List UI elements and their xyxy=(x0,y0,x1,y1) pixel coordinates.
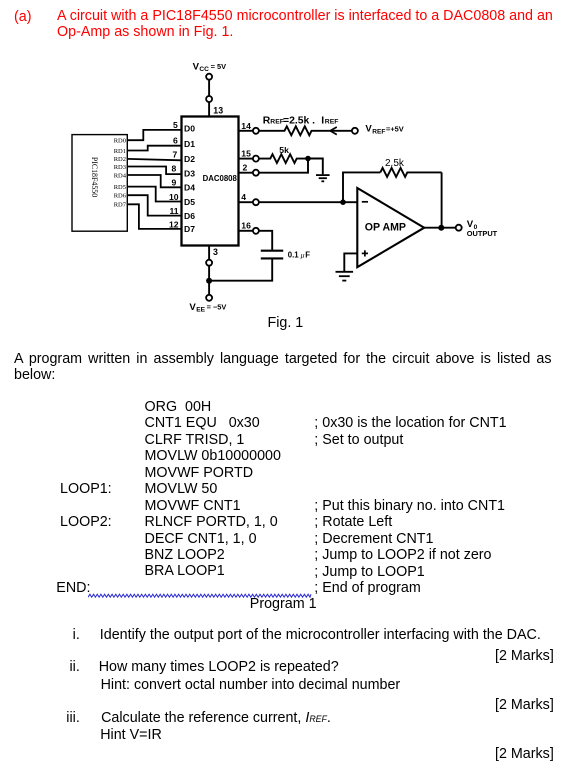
svg-text:15: 15 xyxy=(241,149,251,159)
svg-text:D0: D0 xyxy=(184,123,195,133)
VEE label xyxy=(189,302,226,314)
svg-text:RD4: RD4 xyxy=(114,172,127,179)
wire non-inverting input to ground xyxy=(344,253,357,271)
question iii numeral xyxy=(66,710,80,726)
svg-text:= −5V: = −5V xyxy=(207,303,227,312)
wire RD1 to D1 xyxy=(127,146,181,151)
op-amp minus sign xyxy=(362,201,368,203)
wire RD2 to D2 xyxy=(127,159,181,160)
assembly code listing labels xyxy=(60,481,112,497)
program intro paragraph xyxy=(14,352,552,383)
svg-text:=2.5k .: =2.5k . xyxy=(283,116,315,127)
wire pin2 up to node xyxy=(259,159,308,173)
wire pin4 to op-amp inverting input xyxy=(259,201,357,203)
wire capacitor to pin3 node xyxy=(209,258,272,280)
svg-text:RD2: RD2 xyxy=(114,156,126,163)
node feedback junction xyxy=(340,199,346,205)
wire pin3 to VEE xyxy=(208,266,210,295)
svg-text:RD3: RD3 xyxy=(114,164,126,171)
svg-text:8: 8 xyxy=(172,164,177,174)
svg-text:RD6: RD6 xyxy=(114,193,127,200)
left pin numbers 5-12 xyxy=(169,120,179,230)
connector circle on pin13 wire xyxy=(206,96,212,102)
pin 14 wire xyxy=(239,130,253,132)
D0-D7 pin labels xyxy=(184,123,195,234)
svg-text:13: 13 xyxy=(213,105,223,115)
pin 15 connector circle xyxy=(253,156,259,162)
Program 1 caption xyxy=(250,596,317,612)
svg-text:11: 11 xyxy=(170,206,179,216)
wire RD3 to D3 xyxy=(127,167,181,175)
pin 2 wire xyxy=(239,172,253,174)
Vo OUTPUT label xyxy=(467,219,498,238)
svg-text:10: 10 xyxy=(169,192,179,202)
svg-text:OP AMP: OP AMP xyxy=(365,222,406,234)
svg-text:RD0: RD0 xyxy=(114,138,126,145)
wire RD6 to D6 xyxy=(127,195,181,215)
op-amp U3 triangle xyxy=(357,188,424,267)
PIC18F4550 U2 body xyxy=(72,135,127,232)
VEE terminal xyxy=(206,295,212,301)
wire feedback up and right xyxy=(343,172,380,202)
wire pin16 to capacitor xyxy=(259,231,272,251)
wire op-amp output xyxy=(424,227,456,229)
op-amp plus sign xyxy=(362,250,368,256)
svg-text:D4: D4 xyxy=(184,182,195,192)
pin 15 label xyxy=(241,149,251,159)
svg-text:OUTPUT: OUTPUT xyxy=(467,229,498,238)
svg-text:D2: D2 xyxy=(184,154,195,164)
svg-text:12: 12 xyxy=(169,219,179,229)
pin 16 label xyxy=(241,221,251,231)
wire feedback down to output xyxy=(441,172,443,227)
circuit figure xyxy=(0,0,578,340)
question i text xyxy=(100,627,541,643)
resistor Rref 2.5k xyxy=(259,126,352,135)
spellcheck squiggle under END xyxy=(88,593,312,599)
svg-text:D3: D3 xyxy=(184,169,195,179)
Fig. 1 caption xyxy=(268,315,304,331)
assembly code instructions xyxy=(145,399,281,580)
pin 16 wire xyxy=(239,230,253,232)
svg-text:RD1: RD1 xyxy=(114,148,126,155)
svg-text:=+5V: =+5V xyxy=(386,124,404,133)
assembly code comments upper xyxy=(314,415,506,448)
ground for op-amp xyxy=(336,272,354,281)
Iref arrow xyxy=(330,127,337,135)
resistor 2.5k feedback xyxy=(380,168,441,177)
marks ii xyxy=(495,697,554,713)
svg-text:16: 16 xyxy=(241,221,251,231)
question ii numeral xyxy=(69,659,79,675)
svg-text:3: 3 xyxy=(213,247,218,257)
svg-text:D1: D1 xyxy=(184,139,195,149)
svg-text:4: 4 xyxy=(241,192,246,202)
pin 4 wire xyxy=(239,201,253,203)
svg-text:= 5V: = 5V xyxy=(211,62,226,71)
svg-text:DAC0808: DAC0808 xyxy=(203,174,238,183)
RD0-RD7 pin labels xyxy=(114,138,127,209)
svg-text:5: 5 xyxy=(173,120,178,130)
Iref label xyxy=(321,116,338,127)
pin 4 label xyxy=(241,192,246,202)
pin 13 label xyxy=(213,105,223,115)
ground for 5k node xyxy=(316,175,330,181)
node junction pin15/pin2 xyxy=(305,156,311,162)
pin 3 wire xyxy=(208,246,210,260)
wire VCC to pin13 xyxy=(208,80,210,116)
output terminal xyxy=(456,225,462,231)
pin 2 label xyxy=(243,162,248,172)
pin 4 connector circle xyxy=(253,199,259,205)
svg-text:PIC18F4550: PIC18F4550 xyxy=(90,157,99,197)
pin 14 label xyxy=(241,121,251,131)
pin 3 label xyxy=(213,247,218,257)
pin 15 wire xyxy=(239,158,253,160)
VCC terminal xyxy=(206,74,212,80)
heading item (a) xyxy=(14,9,31,25)
2.5k feedback label xyxy=(385,158,405,169)
svg-text:EE: EE xyxy=(196,306,205,313)
question i numeral xyxy=(73,627,80,643)
wire node to ground xyxy=(308,159,323,175)
svg-text:2.5k: 2.5k xyxy=(385,158,405,169)
svg-text:REF: REF xyxy=(270,119,284,126)
svg-text:RD5: RD5 xyxy=(114,184,126,191)
question iii hint xyxy=(100,727,162,743)
svg-text:D5: D5 xyxy=(184,197,195,207)
svg-text:REF: REF xyxy=(372,128,385,135)
node VEE junction xyxy=(206,278,212,284)
VCC label xyxy=(193,61,226,73)
marks iii xyxy=(495,746,554,762)
svg-text:14: 14 xyxy=(241,121,251,131)
wire RD5 to D5 xyxy=(127,187,181,202)
svg-text:6: 6 xyxy=(173,136,178,146)
svg-text:RD7: RD7 xyxy=(114,202,127,209)
PIC18F4550 label xyxy=(90,157,99,197)
assembly code comments lower xyxy=(314,498,505,597)
Vref terminal xyxy=(352,128,358,134)
pin 3 connector circle xyxy=(206,260,212,266)
pin 16 connector circle xyxy=(253,228,259,234)
Rref label xyxy=(263,116,315,127)
Vref label xyxy=(365,123,403,135)
capacitor value label xyxy=(288,251,310,260)
op-amp label xyxy=(365,222,406,234)
svg-text:0.1: 0.1 xyxy=(288,251,300,260)
pin 14 connector circle xyxy=(253,128,259,134)
svg-text:7: 7 xyxy=(173,150,178,160)
svg-text:REF: REF xyxy=(325,119,339,126)
svg-text:D6: D6 xyxy=(184,211,195,221)
svg-text:F: F xyxy=(305,251,310,260)
node output junction xyxy=(438,225,444,231)
5k label xyxy=(279,145,289,155)
wire RD0 to D0 xyxy=(127,130,181,140)
DAC0808 U1 body xyxy=(182,117,239,246)
marks i xyxy=(495,648,554,664)
question iii text xyxy=(101,710,331,726)
resistor 5k xyxy=(259,154,308,163)
svg-text:μ: μ xyxy=(301,251,305,260)
question ii hint xyxy=(101,677,401,693)
pin 2 connector circle xyxy=(253,170,259,176)
heading paragraph xyxy=(57,9,557,40)
svg-text:2: 2 xyxy=(243,162,248,172)
capacitor C1 plates xyxy=(261,251,283,259)
wire RD4 to D4 xyxy=(127,175,181,187)
svg-text:CC: CC xyxy=(199,66,209,73)
wire RD7 to D7 xyxy=(127,204,181,229)
svg-text:9: 9 xyxy=(172,178,177,188)
DAC0808 label xyxy=(203,174,238,183)
question ii text xyxy=(99,659,339,675)
svg-text:D7: D7 xyxy=(184,224,195,234)
